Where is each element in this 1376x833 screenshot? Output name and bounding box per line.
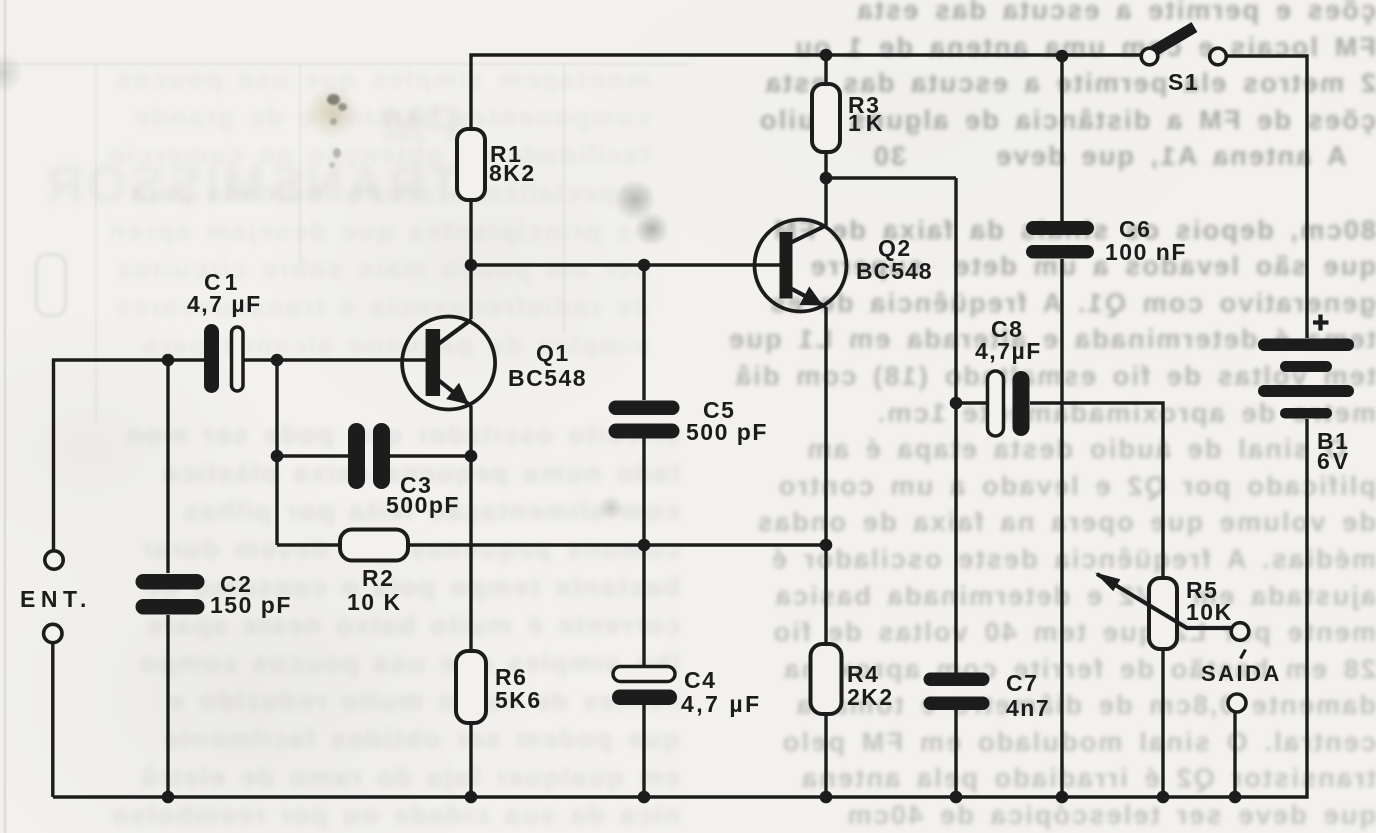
svg-text:5K6: 5K6 [495, 687, 542, 713]
svg-text:8K2: 8K2 [489, 160, 536, 186]
svg-text:R2: R2 [362, 565, 394, 591]
svg-text:10K: 10K [1186, 599, 1233, 625]
svg-text:SAIDA: SAIDA [1201, 661, 1282, 686]
svg-text:C7: C7 [1006, 670, 1038, 696]
svg-text:4,7µF: 4,7µF [975, 338, 1042, 364]
svg-text:ENT.: ENT. [20, 586, 92, 612]
svg-text:BC548: BC548 [508, 365, 587, 391]
svg-text:1K: 1K [848, 110, 887, 136]
svg-text:100 nF: 100 nF [1105, 239, 1187, 265]
svg-text:2K2: 2K2 [847, 684, 894, 710]
svg-text:10 K: 10 K [347, 589, 402, 615]
svg-text:500pF: 500pF [386, 492, 460, 518]
svg-text:6V: 6V [1317, 448, 1351, 474]
svg-text:500 pF: 500 pF [686, 419, 768, 445]
svg-text:Q1: Q1 [536, 340, 570, 366]
svg-text:S1: S1 [1168, 69, 1199, 95]
svg-text:4n7: 4n7 [1006, 695, 1050, 721]
svg-text:4,7 µF: 4,7 µF [187, 291, 262, 317]
svg-text:4,7 µF: 4,7 µF [681, 691, 762, 717]
svg-text:C4: C4 [684, 667, 716, 693]
svg-text:150 pF: 150 pF [210, 592, 292, 618]
svg-text:BC548: BC548 [856, 258, 933, 284]
